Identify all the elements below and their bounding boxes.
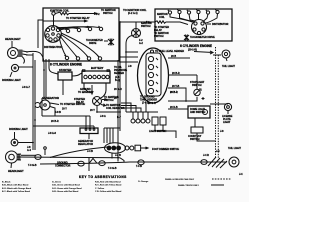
svg-text:J-4 B: J-4 B xyxy=(87,150,93,153)
svg-text:TACHOMETER DRIVE: TACHOMETER DRIVE xyxy=(190,36,215,39)
dimmer drops xyxy=(112,153,118,162)
tail light upper xyxy=(222,50,230,61)
svg-text:A-4: A-4 xyxy=(27,149,32,152)
svg-text:B-6): B-6) xyxy=(115,79,120,82)
light switch bus xyxy=(126,111,158,113)
battery ground strap xyxy=(84,83,88,92)
harness eyelet xyxy=(44,147,47,150)
svg-text:20 B-R: 20 B-R xyxy=(172,72,180,75)
svg-text:20 B: 20 B xyxy=(171,55,176,58)
main trunk center xyxy=(118,22,120,157)
svg-text:DISTRIBUTOR: DISTRIBUTOR xyxy=(44,45,62,49)
svg-text:Y-R--Yellow with Red Band: Y-R--Yellow with Red Band xyxy=(95,190,122,193)
wire ignition feed top xyxy=(119,21,148,23)
wire coil to distributor 6cyl xyxy=(166,22,188,25)
spark plugs bank top xyxy=(66,26,103,33)
foot dimmer switch xyxy=(105,143,149,153)
svg-text:TO FUEL LEVEL SENDER: TO FUEL LEVEL SENDER xyxy=(155,50,184,53)
label GENERATOR REGULATOR xyxy=(88,134,90,140)
svg-text:O--Orange: O--Orange xyxy=(138,180,149,183)
connector C3 xyxy=(138,160,144,165)
starter ground lead xyxy=(62,80,64,95)
parking light lower xyxy=(11,132,33,146)
ballast resistor 6cyl xyxy=(155,21,171,23)
svg-text:20 Y-B: 20 Y-B xyxy=(172,85,180,88)
svg-text:T-3 B: T-3 B xyxy=(136,165,142,168)
svg-text:20 R-B: 20 R-B xyxy=(170,106,178,109)
spark plug wires fan xyxy=(56,27,99,57)
headlight lower xyxy=(6,151,22,168)
svg-text:J-2 B: J-2 B xyxy=(115,154,121,157)
tail light assembly lower xyxy=(208,157,239,168)
svg-text:J-4 R: J-4 R xyxy=(203,154,209,157)
parking light upper xyxy=(11,64,33,71)
svg-text:GENERATOR: GENERATOR xyxy=(42,96,59,100)
8 cylinder engine enclosure box xyxy=(43,8,119,61)
svg-text:A-2: A-2 xyxy=(139,42,144,45)
svg-text:20 B-R: 20 B-R xyxy=(170,91,178,94)
svg-text:B-7: B-7 xyxy=(117,116,122,119)
svg-text:LIGHT: LIGHT xyxy=(223,121,231,124)
distributor V8 xyxy=(45,26,62,43)
svg-text:REGULATOR: REGULATOR xyxy=(78,143,93,146)
wires below 8cyl box xyxy=(42,59,58,110)
svg-text:SWITCH: SWITCH xyxy=(141,25,151,28)
svg-text:AND SWITCH: AND SWITCH xyxy=(190,111,206,114)
left trunk xyxy=(33,53,35,150)
connector C1 xyxy=(78,161,84,166)
svg-text:DRIVE: DRIVE xyxy=(89,42,97,45)
connector C0 xyxy=(35,155,41,160)
svg-text:G--Green: G--Green xyxy=(52,181,62,184)
svg-text:20 G-R: 20 G-R xyxy=(114,88,122,91)
svg-text:HEADLIGHT: HEADLIGHT xyxy=(5,37,21,41)
svg-text:8 CYLINDER ENGINE: 8 CYLINDER ENGINE xyxy=(50,63,82,67)
relay drop wire xyxy=(96,106,98,113)
svg-text:J-8 B: J-8 B xyxy=(55,111,61,114)
distributor 6cyl xyxy=(192,20,207,35)
starter relay xyxy=(93,97,102,106)
svg-text:B-Y--Black with Yellow Band: B-Y--Black with Yellow Band xyxy=(2,190,31,193)
ignition coil xyxy=(52,12,55,15)
cable starter to battery xyxy=(72,73,82,76)
main lighting harness upper xyxy=(17,155,227,171)
svg-text:DISTRIBUTOR: DISTRIBUTOR xyxy=(212,23,229,26)
cluster wires right xyxy=(168,58,197,101)
svg-text:J-8 A-7: J-8 A-7 xyxy=(22,86,31,89)
tachometer cable symbol xyxy=(104,39,114,46)
key column 1 xyxy=(2,182,32,194)
wire into box left xyxy=(43,20,86,22)
license plate light xyxy=(224,103,231,114)
svg-text:(20-1-B): (20-1-B) xyxy=(188,49,197,52)
svg-text:20 Y: 20 Y xyxy=(62,108,67,111)
svg-text:PARKING LIGHT: PARKING LIGHT xyxy=(9,128,28,131)
junction chevron xyxy=(89,158,97,163)
regulator leads xyxy=(86,116,94,128)
light switch feeders xyxy=(121,102,146,112)
key column 2 xyxy=(52,181,82,194)
svg-text:SWITCH: SWITCH xyxy=(154,35,164,38)
ignition switch xyxy=(132,29,141,38)
svg-text:T-3 G-B: T-3 G-B xyxy=(108,167,117,170)
svg-text:TAIL LIGHT: TAIL LIGHT xyxy=(228,147,241,150)
tachometer cable symbol 6cyl xyxy=(184,35,189,41)
svg-text:TO ENGINE: TO ENGINE xyxy=(78,91,92,94)
light switch xyxy=(131,112,166,125)
wire dome to courtesy xyxy=(194,118,196,127)
rear harness dashed xyxy=(216,47,219,158)
svg-text:20 Y: 20 Y xyxy=(114,97,119,100)
spark plugs bank bottom xyxy=(65,55,102,60)
svg-text:TO STARTER SWITCH: TO STARTER SWITCH xyxy=(60,103,85,106)
key column 3 xyxy=(95,181,122,194)
svg-text:PARKING LIGHT: PARKING LIGHT xyxy=(2,79,21,82)
wire dome to license xyxy=(210,103,228,105)
wires to dimmer xyxy=(104,128,120,143)
svg-text:20 G-R: 20 G-R xyxy=(148,102,156,105)
headlight upper xyxy=(8,48,29,64)
wire y101 xyxy=(168,100,189,102)
wire courtesy to tail harness xyxy=(197,133,216,141)
wire armature bus xyxy=(42,115,90,117)
wire switch to column xyxy=(126,36,132,113)
cluster feed wires left xyxy=(120,52,138,62)
dome light and switch xyxy=(188,106,210,118)
svg-text:R-B--Red with Black Band: R-B--Red with Black Band xyxy=(95,181,121,184)
connector C2 xyxy=(99,161,105,166)
wire ignition switch drop xyxy=(135,22,137,29)
wire coil primary xyxy=(53,15,55,25)
svg-text:J-8 A: J-8 A xyxy=(100,115,106,118)
svg-text:G-O--Green with Orange Band: G-O--Green with Orange Band xyxy=(52,187,82,190)
wire y109 xyxy=(168,108,188,110)
svg-text:COIL: COIL xyxy=(159,16,165,19)
svg-text:(F-2 A-1): (F-2 A-1) xyxy=(128,12,138,15)
wire box feed left xyxy=(38,20,43,48)
wire coil to starter relay xyxy=(69,13,96,15)
svg-text:Y--Yellow: Y--Yellow xyxy=(95,188,105,190)
svg-text:LIGHT SWITCH: LIGHT SWITCH xyxy=(149,130,167,133)
stop light switch xyxy=(194,85,205,100)
generator wires xyxy=(50,103,59,116)
switch output drops xyxy=(155,125,176,138)
svg-text:B-B--Black with Blue Band: B-B--Black with Blue Band xyxy=(2,184,29,187)
svg-text:G-R--Green with Red Band: G-R--Green with Red Band xyxy=(52,190,79,193)
svg-text:FOOT DIMMER SWITCH: FOOT DIMMER SWITCH xyxy=(152,148,179,151)
starter xyxy=(58,72,72,80)
instrument cluster xyxy=(138,48,169,103)
ballast resistor xyxy=(55,12,69,15)
wires headlight to trunk xyxy=(26,51,44,70)
wire arrow to tail light xyxy=(213,54,221,56)
wire field bus xyxy=(33,125,94,127)
svg-text:SWITCH: SWITCH xyxy=(103,12,113,15)
svg-text:PANEL TRUCK ONLY: PANEL TRUCK ONLY xyxy=(178,184,199,187)
svg-text:G-B--Green with Black Band: G-B--Green with Black Band xyxy=(52,184,81,187)
svg-text:PANEL & DELUXE CAB ONLY: PANEL & DELUXE CAB ONLY xyxy=(165,178,195,181)
dimmer feed curve xyxy=(50,147,107,158)
svg-text:R-Y--Red with Yellow Band: R-Y--Red with Yellow Band xyxy=(95,184,122,187)
svg-text:20 B-R: 20 B-R xyxy=(51,120,59,123)
svg-text:HEADLIGHT: HEADLIGHT xyxy=(8,169,24,173)
svg-text:CONNECTOR: CONNECTOR xyxy=(55,165,71,168)
svg-text:J-8 A-8: J-8 A-8 xyxy=(48,132,57,135)
connector C4 xyxy=(201,160,207,165)
svg-text:B--Black: B--Black xyxy=(2,182,11,184)
bus wire y112 xyxy=(97,111,120,113)
svg-text:6 CYLINDER ENGINE: 6 CYLINDER ENGINE xyxy=(180,44,212,48)
spark plug wires fan 6cyl xyxy=(170,14,218,23)
svg-text:TAIL LIGHT: TAIL LIGHT xyxy=(222,65,235,68)
wire fuel sender arrow xyxy=(194,52,213,53)
wire stop switch down xyxy=(189,97,197,101)
svg-text:KEY TO ABBREVIATIONS: KEY TO ABBREVIATIONS xyxy=(79,175,127,179)
svg-text:T-3 G-B: T-3 G-B xyxy=(28,164,37,167)
wire into 6cyl box xyxy=(148,21,155,23)
spark plugs 6cyl xyxy=(168,9,219,14)
svg-text:SENDER: SENDER xyxy=(114,72,124,75)
6 cylinder engine enclosure box xyxy=(155,9,232,41)
generator xyxy=(35,100,50,110)
wire cluster to stop switch xyxy=(196,75,198,85)
svg-text:TO STARTER RELAY: TO STARTER RELAY xyxy=(66,17,90,20)
svg-text:20 Y: 20 Y xyxy=(90,109,95,112)
battery xyxy=(82,70,110,83)
cable battery to relay xyxy=(101,83,106,98)
generator regulator xyxy=(80,128,98,134)
svg-text:B-O--Black with Orange Band: B-O--Black with Orange Band xyxy=(2,187,32,190)
courtesy switch xyxy=(191,127,203,133)
svg-text:BATTERY: BATTERY xyxy=(91,66,104,70)
